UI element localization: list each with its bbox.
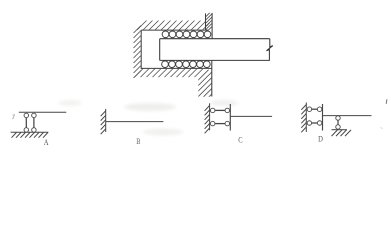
svg-text:A: A [44,137,49,147]
svg-text:C: C [238,135,243,145]
svg-text:B: B [136,137,140,146]
svg-text:D: D [318,133,323,143]
